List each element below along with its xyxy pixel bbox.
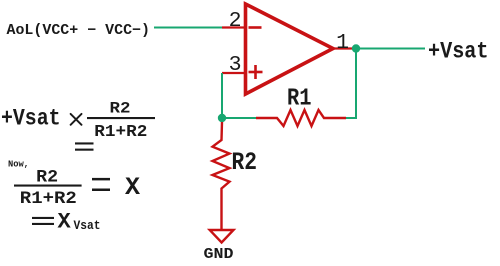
pin 1 stub (output) (333, 47, 356, 49)
svg-text:X: X (125, 173, 140, 202)
svg-text:X: X (58, 210, 72, 235)
svg-text:R2: R2 (110, 100, 131, 118)
junction output node (352, 44, 360, 52)
wire to pin 2 (154, 27, 222, 29)
annotation formula line 4: = X Vsat (32, 217, 54, 219)
resistor R1 (256, 110, 346, 126)
op-amp inverting input minus sign (249, 26, 262, 29)
svg-text:+Vsat: +Vsat (1, 105, 61, 131)
junction node A (218, 114, 226, 122)
svg-text:R1+R2: R1+R2 (20, 189, 77, 209)
svg-text:3: 3 (229, 53, 242, 77)
svg-text:R1: R1 (287, 85, 312, 112)
svg-text:R1+R2: R1+R2 (94, 122, 147, 141)
wire pin 3 down to node A (221, 73, 223, 118)
annotation equals line 2 (75, 142, 94, 144)
op-amp non-inverting input plus sign (249, 65, 263, 79)
svg-text:GND: GND (204, 247, 234, 261)
svg-text:1: 1 (336, 31, 349, 55)
svg-text:2: 2 (229, 9, 242, 33)
svg-text:Now,: Now, (8, 160, 29, 170)
pin 3 stub (222, 72, 244, 74)
ground symbol (210, 230, 234, 243)
wire output down to R1 right (346, 49, 356, 119)
resistor R2 (213, 122, 230, 229)
svg-text:Vsat: Vsat (74, 219, 101, 233)
svg-text:+Vsat: +Vsat (428, 39, 489, 65)
wire node A to R1 left (222, 117, 256, 119)
svg-text:AoL(VCC+ − VCC−): AoL(VCC+ − VCC−) (7, 23, 151, 39)
op-amp U1 triangle (246, 4, 334, 94)
svg-text:R2: R2 (232, 148, 258, 177)
wire output to +Vsat (356, 48, 425, 50)
pin 2 stub (222, 26, 244, 28)
